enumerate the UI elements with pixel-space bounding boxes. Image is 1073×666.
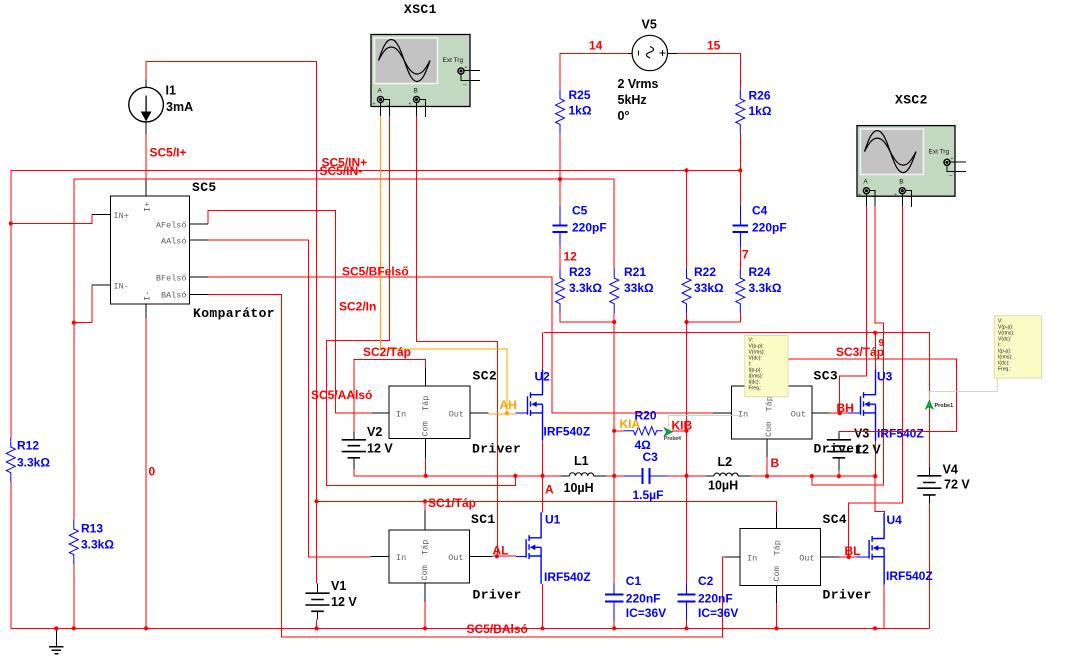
- svg-text:72 V: 72 V: [944, 478, 970, 492]
- svg-text:Out: Out: [449, 410, 464, 420]
- svg-text:Táp: Táp: [765, 396, 775, 411]
- wire V5 left to R25: [560, 53, 628, 89]
- wire IN- pin tap: [74, 285, 92, 323]
- wire XSC1 B+ probe to AL node: [417, 116, 498, 556]
- svg-text:Probe1: Probe1: [935, 403, 954, 409]
- capacitor C4: [739, 206, 741, 247]
- svg-text:SC5/I+: SC5/I+: [150, 146, 187, 160]
- svg-text:12 V: 12 V: [367, 442, 393, 456]
- svg-text:BFelső: BFelső: [156, 274, 187, 284]
- svg-text:5kHz: 5kHz: [618, 93, 647, 107]
- svg-text:SC5: SC5: [192, 180, 217, 195]
- capacitor C2: [686, 583, 688, 620]
- svg-text:KIB: KIB: [672, 419, 693, 433]
- svg-text:R24: R24: [749, 265, 771, 279]
- wire node A line: [354, 475, 614, 477]
- resistor R26: [736, 89, 745, 134]
- svg-text:9: 9: [879, 338, 885, 349]
- svg-text:R23: R23: [569, 265, 591, 279]
- mosfet U3: [848, 412, 861, 414]
- svg-text:Driver: Driver: [814, 442, 863, 457]
- svg-text:U1: U1: [545, 513, 561, 527]
- svg-text:In: In: [396, 553, 406, 563]
- svg-text:SC1: SC1: [471, 512, 496, 527]
- svg-text:220nF: 220nF: [698, 592, 733, 606]
- svg-text:Driver: Driver: [472, 442, 521, 457]
- svg-text:_: _: [948, 170, 953, 176]
- comparator SC5 box: [111, 196, 190, 304]
- svg-text:0: 0: [149, 465, 156, 479]
- svg-text:Out: Out: [799, 553, 814, 563]
- svg-text:Driver: Driver: [823, 588, 872, 603]
- svg-text:In: In: [747, 553, 757, 563]
- svg-text:I-: I-: [143, 291, 153, 301]
- svg-text:B: B: [414, 87, 418, 94]
- svg-text:1kΩ: 1kΩ: [749, 104, 772, 118]
- wire R22 column from SC5/IN+ down through R22 C2 to ground bus: [686, 170, 688, 628]
- capacitor C3: [614, 475, 686, 477]
- resistor R22: [682, 269, 691, 314]
- svg-text:L2: L2: [718, 455, 733, 469]
- svg-text:BH: BH: [837, 401, 854, 415]
- svg-text:+: +: [894, 193, 897, 199]
- svg-text:SC5/BAlsó: SC5/BAlsó: [467, 622, 528, 636]
- svg-text:14: 14: [589, 39, 603, 53]
- svg-text:L1: L1: [574, 454, 589, 468]
- wire SC3 Tap net to V3 plus: [770, 359, 956, 433]
- wire R26 bottom to C4: [739, 134, 741, 206]
- svg-text:SC1/Táp: SC1/Táp: [428, 496, 476, 510]
- svg-text:Com: Com: [772, 566, 782, 581]
- svg-text:15: 15: [707, 39, 721, 53]
- resistor R25: [556, 89, 565, 134]
- svg-text:220nF: 220nF: [626, 592, 661, 606]
- orange junction dot AH: [505, 411, 509, 415]
- svg-text:I+: I+: [143, 202, 153, 212]
- svg-text:AL: AL: [493, 544, 509, 558]
- svg-text:+: +: [858, 193, 861, 199]
- svg-text:33kΩ: 33kΩ: [694, 281, 724, 295]
- orange wire AH segment on SC2 out: [488, 413, 515, 415]
- svg-text:Táp: Táp: [773, 540, 783, 555]
- wire SC4 Com to ground bus: [776, 603, 778, 628]
- svg-text:C1: C1: [626, 574, 642, 588]
- svg-text:Out: Out: [791, 410, 806, 420]
- svg-text:Probe4: Probe4: [664, 436, 681, 442]
- svg-text:7: 7: [742, 248, 749, 262]
- driver SC2 box: [389, 386, 470, 439]
- svg-text:12 V: 12 V: [331, 595, 357, 609]
- svg-text:Táp: Táp: [421, 396, 431, 411]
- svg-text:R21: R21: [624, 265, 646, 279]
- svg-text:SC5/IN-: SC5/IN-: [320, 164, 363, 178]
- wire AFelso to SC2 In: [208, 211, 372, 414]
- oscilloscope XSC1: [371, 35, 480, 118]
- svg-text:B: B: [771, 456, 780, 470]
- svg-text:C2: C2: [698, 574, 714, 588]
- svg-text:SC3/Táp: SC3/Táp: [836, 345, 884, 359]
- wire SC4 Out to BL gate: [839, 556, 857, 558]
- svg-text:1.5µF: 1.5µF: [633, 488, 664, 502]
- svg-text:BL: BL: [845, 544, 861, 558]
- svg-text:Freq.:: Freq.:: [998, 367, 1011, 373]
- wire R21 column from SC5/IN- down through R21 C1 to ground bus: [613, 179, 615, 628]
- svg-text:IRF540Z: IRF540Z: [886, 569, 933, 583]
- svg-text:R25: R25: [569, 88, 591, 102]
- wire SC1 Com to ground bus: [424, 602, 426, 628]
- wire U1 drain from node A: [542, 476, 544, 513]
- svg-text:33kΩ: 33kΩ: [624, 281, 654, 295]
- probe Probe4: [664, 428, 673, 437]
- svg-text:IRF540Z: IRF540Z: [877, 427, 924, 441]
- wire SC2 Tap supply loop: [354, 359, 426, 432]
- ground: [55, 628, 57, 646]
- svg-text:SC3: SC3: [814, 369, 839, 384]
- svg-text:+: +: [465, 65, 468, 71]
- svg-text:Ext Trg: Ext Trg: [929, 149, 950, 156]
- wire XSC2 A+ probe to BH: [840, 206, 867, 413]
- svg-text:C3: C3: [643, 450, 659, 464]
- svg-text:IC=36V: IC=36V: [626, 606, 666, 620]
- oscilloscope XSC2: [857, 126, 966, 207]
- wire left column from SC5/IN+ down through R12 to ground bus: [10, 170, 12, 628]
- wire BAlso to SC5/BAlso bus: [208, 295, 725, 638]
- mosfet U2: [515, 412, 527, 414]
- wire U3 source to node B line: [874, 440, 876, 476]
- svg-text:Komparátor: Komparátor: [193, 306, 275, 321]
- wire V2 minus to node A line: [353, 469, 355, 476]
- probe Probe1: [925, 400, 933, 409]
- wire U2 drain to 72V bus: [542, 333, 544, 370]
- wire C4 bottom to R24: [739, 247, 741, 269]
- resistor R13: [69, 520, 78, 565]
- wire V4 minus to ground bus: [928, 503, 930, 628]
- callout line to note 2: [929, 378, 997, 400]
- wire V5 right to R26: [677, 53, 740, 89]
- svg-text:KIA: KIA: [620, 417, 641, 431]
- svg-text:U4: U4: [887, 513, 903, 527]
- battery V3: [838, 433, 840, 471]
- junction dots: [9, 221, 13, 225]
- wire U1 source to ground bus: [542, 584, 544, 628]
- svg-text:SC2: SC2: [473, 369, 498, 384]
- wire V3 plus overlay: [839, 430, 957, 432]
- measurement note 1: [745, 336, 788, 397]
- battery V4: [928, 468, 930, 504]
- svg-text:Freq.:: Freq.:: [749, 385, 762, 391]
- svg-text:U3: U3: [877, 370, 893, 384]
- driver SC4 box: [740, 529, 821, 586]
- wire XSC1 A- probe to node A line: [326, 116, 515, 486]
- svg-text:SC4: SC4: [823, 512, 848, 527]
- ac source V5: [632, 35, 667, 70]
- wire BFelso to SC3 In: [208, 277, 713, 413]
- wire SC1 Out to AL gate: [492, 555, 516, 557]
- svg-text:SC5/BFelső: SC5/BFelső: [342, 265, 409, 279]
- svg-text:Out: Out: [448, 553, 463, 563]
- svg-text:IRF540Z: IRF540Z: [544, 570, 591, 584]
- svg-text:V5: V5: [642, 18, 657, 32]
- svg-text:3.3kΩ: 3.3kΩ: [81, 538, 114, 552]
- svg-text:In: In: [738, 410, 748, 420]
- svg-text:Com: Com: [764, 422, 774, 437]
- capacitor C5: [559, 206, 561, 247]
- wire node B line: [750, 475, 875, 477]
- svg-text:+: +: [373, 102, 376, 108]
- inductor L2: [687, 475, 707, 477]
- wire node B down to U4 drain: [875, 476, 884, 514]
- wire net SC1/Tap horizontal: [317, 501, 777, 512]
- wire SC3 Out to BH gate: [829, 412, 848, 414]
- wire net SC5/IN- horizontal: [74, 178, 614, 180]
- svg-text:Táp: Táp: [421, 540, 431, 555]
- svg-text:V2: V2: [367, 425, 382, 439]
- wire C5 bottom to R23: [559, 247, 561, 269]
- svg-text:A: A: [545, 483, 554, 497]
- driver SC1 box: [389, 530, 469, 583]
- svg-text:IN+: IN+: [114, 211, 129, 221]
- svg-text:U2: U2: [535, 370, 551, 384]
- svg-text:XSC1: XSC1: [404, 2, 437, 17]
- svg-text:V1: V1: [331, 579, 346, 593]
- svg-text:+: +: [409, 102, 412, 108]
- measurement note 2: [994, 316, 1041, 378]
- wire U3 drain branch: [874, 333, 876, 370]
- svg-text:R22: R22: [694, 265, 716, 279]
- wire R25 bottom to C5: [559, 134, 561, 206]
- svg-text:220pF: 220pF: [752, 221, 787, 235]
- svg-text:IRF540Z: IRF540Z: [544, 425, 591, 439]
- svg-text:SC5/AAlsó: SC5/AAlsó: [311, 388, 372, 402]
- svg-text:V4: V4: [943, 463, 958, 477]
- capacitor C1: [613, 583, 615, 620]
- svg-text:3.3kΩ: 3.3kΩ: [749, 281, 782, 295]
- svg-text:In: In: [396, 410, 406, 420]
- svg-text:R26: R26: [749, 89, 771, 103]
- wire XSC2 B+ probe to BL: [849, 206, 903, 557]
- svg-text:C5: C5: [572, 204, 588, 218]
- svg-text:AFelső: AFelső: [156, 221, 187, 231]
- wire IN+ pin tap: [11, 215, 92, 224]
- wire R23 bottom to node 322: [560, 313, 614, 322]
- svg-text:10µH: 10µH: [708, 479, 738, 493]
- wire R20 right lead to KIB: [672, 430, 687, 432]
- inductor L1: [561, 475, 606, 477]
- wire AAlso to SC1 In: [208, 240, 371, 557]
- svg-text:I1: I1: [166, 84, 176, 98]
- svg-text:Com: Com: [421, 421, 431, 436]
- svg-text:IC=36V: IC=36V: [698, 606, 738, 620]
- svg-text:Driver: Driver: [473, 588, 522, 603]
- svg-text:1kΩ: 1kΩ: [569, 104, 592, 118]
- wire upper DC bus 72V from U2 drain to V4: [544, 333, 930, 468]
- svg-text:3mA: 3mA: [166, 100, 193, 114]
- svg-text:0°: 0°: [618, 109, 630, 123]
- svg-text:C4: C4: [752, 204, 768, 218]
- svg-text:BAlsó: BAlsó: [161, 291, 187, 301]
- wire I1 top to net-0 column: [146, 62, 317, 502]
- wire net SC5/IN+ horizontal: [11, 169, 741, 171]
- svg-text:12: 12: [564, 250, 578, 264]
- wire ground bus: [11, 627, 930, 629]
- svg-text:V3: V3: [854, 427, 869, 441]
- wire SC2 Com to node A line: [425, 458, 427, 476]
- driver SC3 box: [731, 386, 812, 439]
- svg-text:AAlsó: AAlsó: [161, 237, 187, 247]
- svg-text:Com: Com: [420, 565, 430, 580]
- callout line to note 1: [669, 416, 745, 427]
- wire net 0 comparator bottom to ground bus: [145, 318, 147, 628]
- svg-text:R12: R12: [17, 439, 39, 453]
- svg-text:IN-: IN-: [114, 282, 129, 292]
- svg-text:B: B: [899, 179, 903, 186]
- resistor R20 horizontal with leads: [614, 430, 624, 432]
- wire R24 bottom to node 322: [687, 313, 741, 322]
- svg-text:SC2/In: SC2/In: [339, 300, 376, 314]
- svg-text:AH: AH: [500, 398, 517, 412]
- svg-text:A: A: [863, 179, 868, 186]
- wire net 0 column continues V1: [316, 501, 318, 628]
- svg-text:10µH: 10µH: [564, 481, 594, 495]
- wire SC3 Com to node B line: [766, 457, 768, 476]
- resistor R24: [736, 269, 745, 314]
- wire second left column through R13 to ground bus: [73, 179, 75, 628]
- svg-text:A: A: [378, 87, 383, 94]
- current source I1: [145, 80, 147, 197]
- svg-text:3.3kΩ: 3.3kΩ: [569, 281, 602, 295]
- battery V1: [317, 584, 319, 620]
- svg-text:SC2/Táp: SC2/Táp: [363, 345, 411, 359]
- svg-text:_: _: [462, 79, 467, 85]
- svg-text:+: +: [951, 156, 954, 162]
- svg-text:3.3kΩ: 3.3kΩ: [17, 456, 50, 470]
- wire XSC2 A- probe to node B: [812, 206, 884, 485]
- svg-text:XSC2: XSC2: [895, 93, 928, 108]
- wire U2 source to node A line: [542, 441, 544, 476]
- battery V2: [353, 432, 355, 469]
- mosfet U4: [857, 556, 869, 558]
- resistor R21: [610, 269, 619, 314]
- wire V3 minus to node B line: [838, 470, 840, 476]
- svg-text:R13: R13: [81, 522, 103, 536]
- orange wire XSC1 A+ to AH node: [381, 116, 507, 414]
- wire SC1 Tap pin: [424, 501, 426, 510]
- mosfet U1: [516, 555, 526, 557]
- svg-text:2 Vrms: 2 Vrms: [618, 77, 659, 91]
- svg-text:220pF: 220pF: [572, 221, 607, 235]
- resistor R12: [6, 438, 15, 483]
- resistor R23: [556, 269, 565, 314]
- svg-text:Ext Trg: Ext Trg: [443, 57, 464, 64]
